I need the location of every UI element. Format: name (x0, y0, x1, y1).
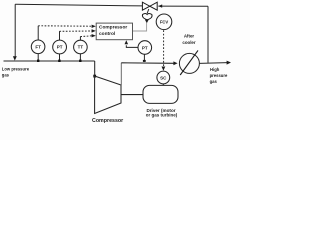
wire FT signal riser (37, 26, 39, 40)
arrowhead high pressure outlet (227, 61, 231, 65)
svg-text:gas: gas (2, 73, 10, 78)
wire recycle top line right segment (158, 5, 208, 7)
arrowhead down onto suction pipe (13, 56, 17, 60)
svg-text:High: High (210, 67, 220, 72)
svg-text:or gas turbine): or gas turbine) (146, 113, 178, 118)
wire discharge pipe to outlet (199, 62, 227, 65)
svg-text:gas: gas (210, 79, 218, 84)
instrument TT circle (74, 40, 88, 54)
svg-text:Compressor: Compressor (92, 118, 123, 124)
svg-text:Compressor: Compressor (99, 25, 127, 31)
wire PT signal dashed (59, 30, 92, 32)
wire recycle top line left segment (15, 4, 142, 6)
instrument PT circle (53, 40, 67, 54)
valve stem (147, 9, 149, 13)
svg-text:FT: FT (35, 45, 41, 50)
wire signal control box to valve (133, 23, 147, 31)
svg-text:Low pressure: Low pressure (2, 66, 30, 71)
wire TT tap to suction pipe (79, 54, 81, 61)
compressor control box (96, 23, 132, 40)
arrowhead PT discharge into control box bottom (125, 40, 129, 44)
node FT tap (37, 60, 39, 62)
wire PT tap to suction pipe (59, 54, 61, 61)
shaft compressor to driver (121, 94, 143, 96)
wire TT signal riser (79, 37, 81, 41)
arrowhead into after-cooler (173, 61, 177, 65)
node TT tap (79, 60, 81, 62)
instrument PT discharge circle (138, 41, 152, 55)
svg-text:After: After (184, 34, 195, 39)
wire PT discharge tap (143, 54, 145, 61)
instrument FCV circle (156, 14, 172, 30)
wire suction pipe (4, 60, 95, 62)
wire suction drop into compressor (94, 61, 96, 76)
wire SC to driver (162, 84, 164, 86)
svg-text:SC: SC (160, 75, 167, 80)
svg-text:control: control (99, 31, 115, 37)
svg-text:cooler: cooler (182, 40, 195, 45)
wire PT signal riser (59, 31, 61, 40)
arrowhead signal into actuator (145, 20, 149, 24)
arrowhead FT into control box (92, 25, 96, 28)
wire dashed FCV to SC (163, 30, 165, 66)
wire recycle right riser (207, 6, 209, 63)
svg-text:TT: TT (78, 45, 84, 50)
wire FT tap to suction pipe (37, 54, 39, 61)
valve actuator cup (142, 14, 152, 20)
instrument SC circle (157, 71, 170, 84)
node PT discharge tap (143, 60, 146, 62)
svg-text:PT: PT (142, 45, 148, 50)
wire PT discharge signal to control box (126, 45, 138, 47)
wire recycle left vertical (14, 4, 16, 57)
compressor body (95, 76, 121, 114)
wire discharge riser (120, 63, 122, 85)
arrowhead into valve pointing left (158, 4, 162, 7)
after-cooler circle (179, 53, 199, 73)
wire FT signal dashed (38, 25, 92, 27)
arrowhead PT into control box (92, 29, 96, 32)
driver box (143, 85, 178, 103)
svg-text:PT: PT (57, 45, 63, 50)
arrowhead into SC (162, 67, 166, 71)
instrument FT circle (31, 40, 45, 54)
svg-text:FCV: FCV (160, 19, 169, 24)
wire discharge pipe to cooler (121, 62, 174, 65)
node PT tap (58, 60, 60, 62)
valve FCV body bowtie (142, 2, 149, 10)
node compressor inlet junction (93, 75, 96, 78)
wire TT signal dashed (80, 35, 92, 38)
arrowhead TT into control box (92, 34, 96, 37)
svg-text:pressure: pressure (210, 73, 228, 78)
after-cooler diagonal (180, 50, 198, 75)
